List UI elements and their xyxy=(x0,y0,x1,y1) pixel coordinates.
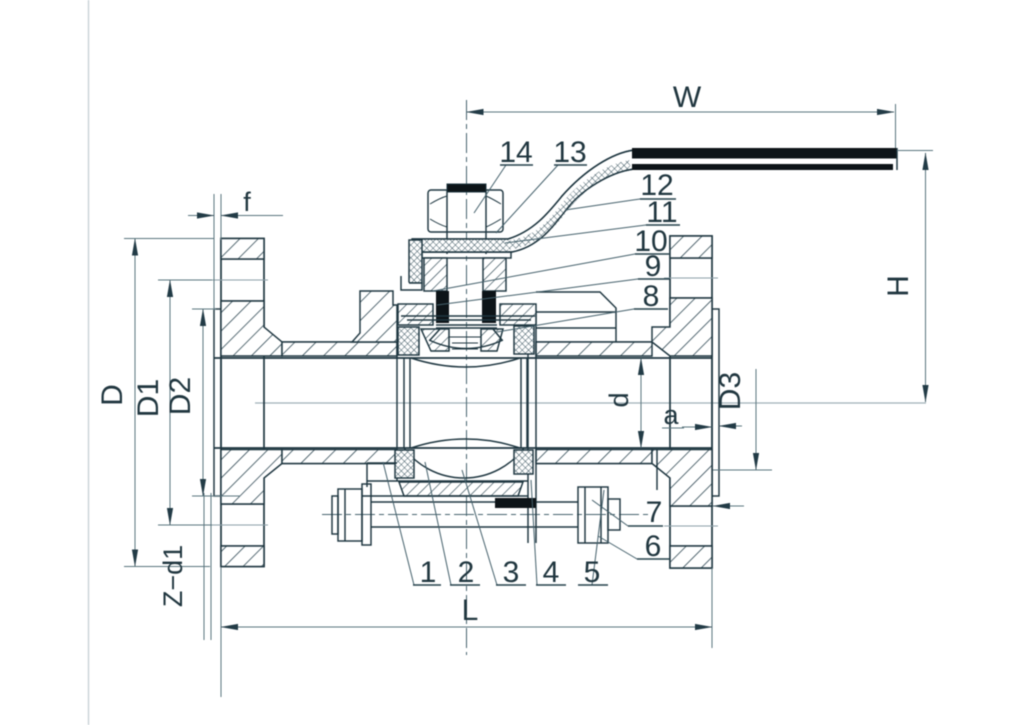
svg-text:D3: D3 xyxy=(714,372,747,410)
svg-text:f: f xyxy=(243,187,251,217)
svg-text:H: H xyxy=(882,275,915,297)
svg-text:D: D xyxy=(96,384,129,406)
svg-text:3: 3 xyxy=(503,556,520,589)
svg-text:d: d xyxy=(604,392,634,407)
svg-text:a: a xyxy=(663,400,679,430)
svg-text:2: 2 xyxy=(458,556,475,589)
svg-text:4: 4 xyxy=(543,556,560,589)
svg-text:L: L xyxy=(462,594,479,627)
svg-text:6: 6 xyxy=(645,530,662,563)
svg-text:Z−d1: Z−d1 xyxy=(158,545,188,607)
svg-text:D2: D2 xyxy=(164,377,197,415)
svg-text:1: 1 xyxy=(420,556,437,589)
svg-text:5: 5 xyxy=(584,556,601,589)
svg-text:7: 7 xyxy=(646,496,663,529)
svg-text:14: 14 xyxy=(499,136,532,169)
svg-text:8: 8 xyxy=(643,280,660,313)
svg-text:13: 13 xyxy=(553,136,586,169)
svg-text:9: 9 xyxy=(645,250,662,283)
svg-text:W: W xyxy=(673,81,702,114)
svg-text:D1: D1 xyxy=(132,379,165,417)
